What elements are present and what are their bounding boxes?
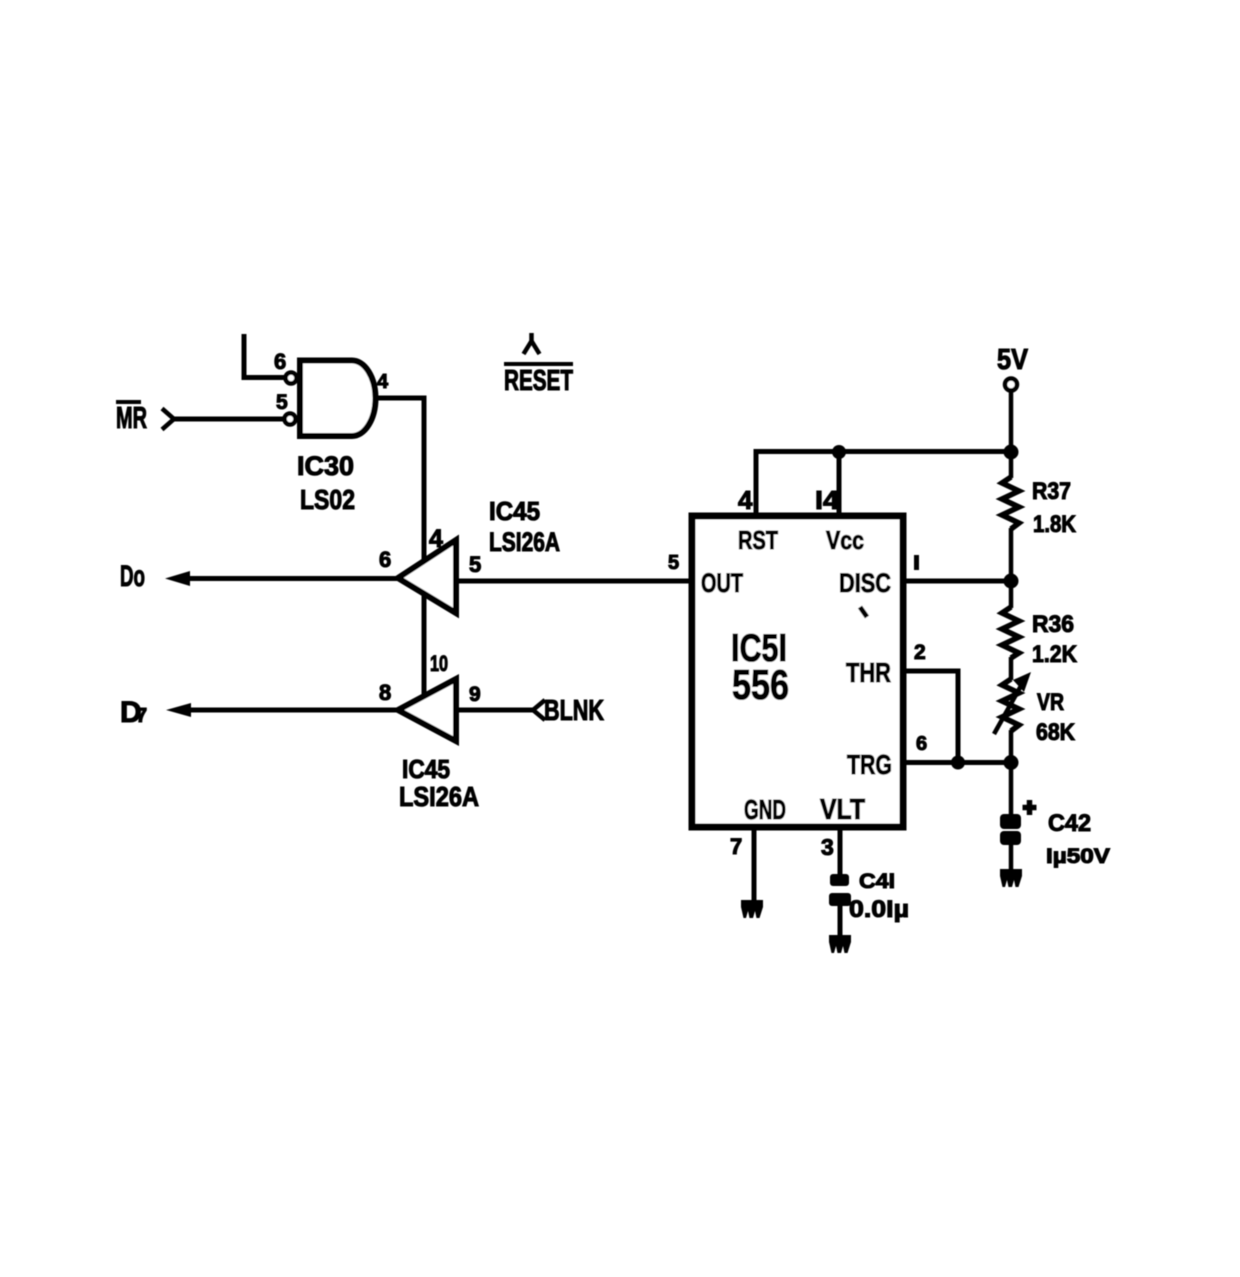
svg-text:Vcc: Vcc	[826, 525, 864, 555]
svg-text:VLT: VLT	[820, 794, 865, 826]
svg-text:68K: 68K	[1036, 719, 1076, 746]
svg-text:5: 5	[276, 391, 288, 414]
svg-text:6: 6	[274, 349, 286, 374]
svg-text:C42: C42	[1048, 810, 1091, 837]
svg-text:Do: Do	[120, 560, 145, 593]
svg-text:DISC: DISC	[839, 568, 891, 598]
svg-text:2: 2	[914, 641, 926, 664]
svg-text:OUT: OUT	[701, 568, 743, 598]
svg-text:IC30: IC30	[297, 451, 354, 481]
svg-text:LSI26A: LSI26A	[399, 781, 479, 812]
svg-text:R37: R37	[1032, 478, 1071, 505]
svg-text:IC45: IC45	[402, 754, 450, 784]
svg-text:8: 8	[379, 680, 391, 705]
svg-text:VR: VR	[1037, 689, 1064, 716]
svg-text:Iµ50V: Iµ50V	[1046, 845, 1110, 868]
svg-text:C4I: C4I	[859, 870, 895, 893]
svg-text:IC45: IC45	[489, 496, 540, 526]
svg-text:1.2K: 1.2K	[1032, 641, 1078, 668]
svg-text:3: 3	[821, 834, 834, 860]
svg-text:RST: RST	[738, 525, 778, 555]
svg-text:THR: THR	[846, 657, 891, 688]
svg-text:7: 7	[730, 834, 742, 859]
svg-text:RESET: RESET	[504, 365, 573, 397]
svg-text:0.0Iµ: 0.0Iµ	[849, 896, 909, 923]
svg-text:BLNK: BLNK	[544, 695, 604, 727]
svg-text:4: 4	[738, 485, 753, 515]
svg-text:I4: I4	[815, 485, 840, 515]
svg-text:LS02: LS02	[300, 484, 355, 515]
svg-text:LSI26A: LSI26A	[489, 527, 560, 557]
svg-text:556: 556	[732, 661, 789, 708]
svg-text:TRG: TRG	[847, 749, 892, 780]
svg-text:1.8K: 1.8K	[1033, 511, 1077, 538]
svg-text:5V: 5V	[997, 344, 1029, 376]
svg-text:5: 5	[469, 552, 481, 577]
svg-text:4: 4	[377, 371, 389, 393]
svg-text:MR: MR	[116, 400, 147, 435]
svg-text:4: 4	[429, 525, 443, 553]
svg-text:6: 6	[379, 547, 391, 572]
svg-text:5: 5	[668, 552, 679, 574]
svg-text:6: 6	[916, 733, 927, 755]
svg-text:9: 9	[469, 683, 481, 706]
svg-text:GND: GND	[744, 794, 786, 825]
svg-text:7: 7	[136, 705, 147, 727]
svg-text:10: 10	[430, 651, 448, 676]
svg-text:R36: R36	[1032, 611, 1074, 638]
